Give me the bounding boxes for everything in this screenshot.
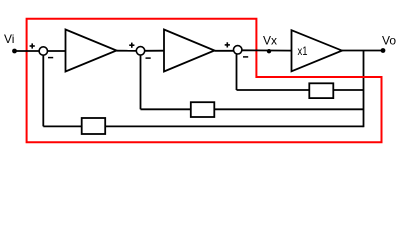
wire A2 to summer S3 <box>215 50 234 52</box>
summing junction S1 <box>39 47 47 55</box>
node Vo terminal dot <box>381 48 386 53</box>
wire S1 feedback drop <box>42 55 44 126</box>
resistor R3 <box>309 83 333 98</box>
plus sign at summer S3 <box>225 42 230 47</box>
resistor R2 <box>191 102 215 117</box>
svg-text:Vi: Vi <box>4 32 14 46</box>
wire S3 to buffer A3 <box>242 49 292 51</box>
svg-text:x1: x1 <box>298 46 308 58</box>
wire feedback row B <box>141 108 364 110</box>
summing junction S3 <box>234 46 242 54</box>
wire feedback row A <box>237 89 364 91</box>
resistor R1 <box>82 118 106 134</box>
svg-text:Vx: Vx <box>263 34 277 48</box>
red subcircuit boundary box <box>27 19 382 142</box>
wire S3 feedback drop <box>236 54 238 90</box>
minus sign at summer S3 <box>243 56 248 58</box>
minus sign at summer S2 <box>146 57 151 59</box>
red boundary segment over feedback wire <box>256 76 381 78</box>
wire S2 feedback drop <box>140 55 142 109</box>
wire Vi to summer S1 <box>15 50 40 52</box>
minus sign at summer S1 <box>48 57 53 59</box>
op-amp A1 <box>66 30 117 72</box>
svg-text:Vo: Vo <box>382 34 396 48</box>
buffer op-amp A3 <box>292 30 343 71</box>
wire A3 to Vo <box>342 50 383 52</box>
feedback vertical wire from output <box>363 51 365 128</box>
wire S2 to amplifier A2 <box>145 50 164 52</box>
plus sign at summer S1 <box>30 43 35 48</box>
wire feedback row C <box>43 125 363 127</box>
summing junction S2 <box>136 47 144 55</box>
node Vx junction dot <box>267 49 271 53</box>
node Vi terminal dot <box>12 49 17 54</box>
wire S1 to amplifier A1 <box>48 50 66 52</box>
wire A1 to summer S2 <box>117 50 137 52</box>
plus sign at summer S2 <box>129 43 134 48</box>
op-amp A2 <box>164 30 215 72</box>
